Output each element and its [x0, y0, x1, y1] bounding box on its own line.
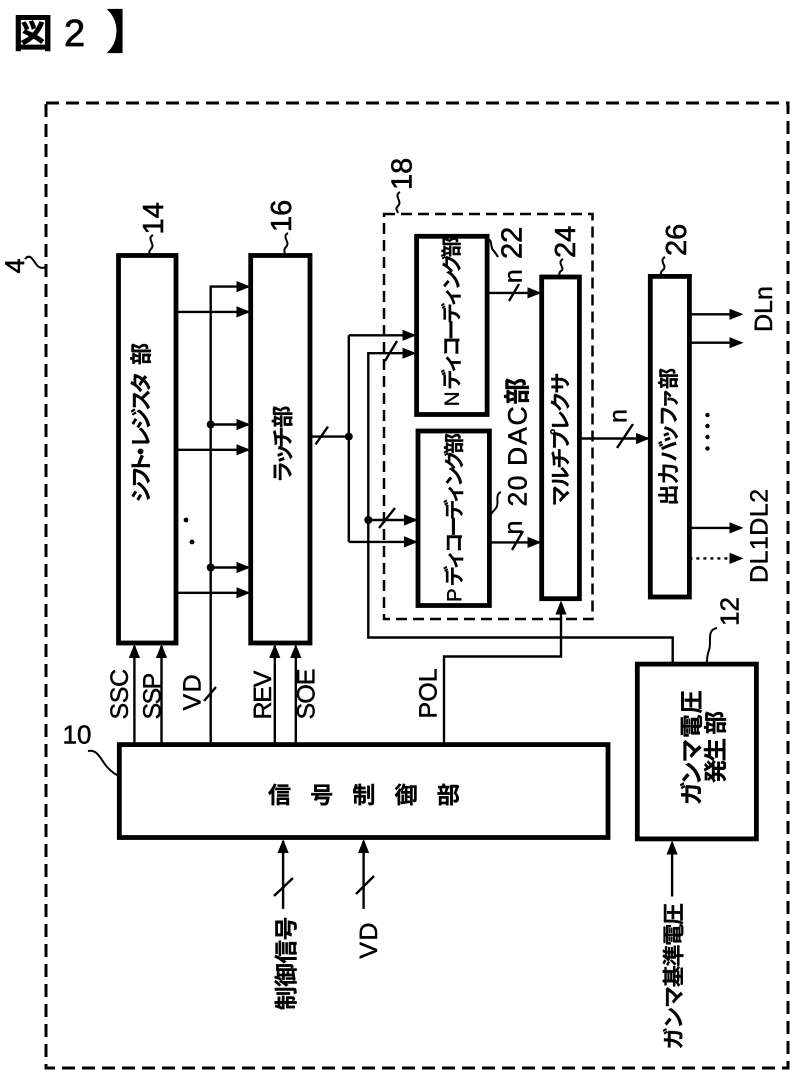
wire POL — [444, 603, 561, 745]
label 12 — [720, 598, 738, 624]
arrowhead mux to buffer — [636, 433, 650, 444]
slash VD input — [356, 876, 374, 894]
block 10 signal control-bu — [119, 745, 608, 838]
label control signal (seigyo shingo) — [275, 918, 297, 1009]
text shift-register-bu — [130, 344, 150, 501]
label VD (bottom) — [360, 924, 377, 959]
wire VD input — [362, 841, 364, 909]
label 20 DAC-bu — [504, 379, 529, 505]
wire VD branch group2 — [211, 423, 248, 425]
arrowhead VD to latch group2 — [237, 419, 251, 430]
wire DLn upper — [689, 313, 741, 315]
wire DL1 (dotted) — [689, 557, 741, 559]
block 16 latch (latch-bu) — [251, 256, 310, 644]
wire shiftreg to latch 3 — [176, 592, 248, 594]
label POL — [419, 669, 437, 716]
junction VD group2 — [207, 421, 215, 429]
slash n N out — [509, 284, 519, 301]
wire latch bus vertical — [348, 335, 350, 542]
label VD (top) — [183, 676, 200, 711]
arrowhead control signal — [278, 839, 289, 853]
squiggle for label 20 — [490, 492, 501, 516]
arrowhead shiftreg latch 3 — [237, 587, 251, 598]
arrowhead shiftreg latch 2 — [237, 444, 251, 455]
arrowhead P to mux — [528, 537, 542, 548]
wire latch to P decoder — [349, 541, 416, 543]
arrowhead DLn lower — [730, 337, 744, 348]
squiggle for label 12 — [707, 628, 717, 663]
label 4 — [5, 259, 24, 273]
wire VD vertical riser — [211, 287, 248, 745]
label DLn — [755, 288, 772, 330]
arrowhead latch to P — [404, 536, 418, 547]
block 14 shift register (shift-register-bu) — [119, 256, 177, 644]
slash control signal — [274, 878, 293, 896]
text latch-bu — [272, 406, 292, 480]
slash gamma N branch — [385, 341, 397, 361]
squiggle for label 18 — [396, 192, 400, 213]
slash gamma P branch — [379, 508, 395, 528]
squiggle for label 24 — [559, 259, 563, 277]
label 24 — [555, 227, 575, 257]
label n (N out) — [508, 271, 521, 282]
label n (mux out) — [613, 411, 626, 422]
junction VD group3 — [207, 564, 215, 572]
ellipsis dot a (between groups) — [184, 518, 189, 523]
wire shiftreg to latch 1 — [176, 311, 248, 313]
label SSC — [110, 670, 128, 719]
label DL1DL2 — [750, 490, 767, 581]
wire gamma bus — [368, 353, 672, 663]
wire gamma to P decoder — [368, 519, 415, 521]
label 10 — [64, 725, 90, 743]
squiggle for label 26 — [661, 257, 665, 276]
arrowhead REV — [269, 644, 280, 658]
wire REV — [274, 646, 276, 745]
label 26 — [666, 225, 687, 255]
block 22 N decoding-bu — [417, 236, 488, 414]
wire N decoder to mux — [487, 292, 539, 294]
arrowhead DLn upper — [730, 309, 744, 320]
text gamma-denatsu — [680, 691, 702, 803]
squiggle for label 22 — [486, 239, 498, 257]
squiggle for label 16 — [284, 233, 288, 255]
label REV — [254, 671, 271, 718]
output ellipsis dot 4 — [705, 446, 709, 450]
wire shiftreg to latch 2 — [176, 449, 248, 451]
ellipsis dot b (between groups) — [190, 540, 195, 545]
label 22 — [501, 228, 521, 257]
text multiplexer — [550, 374, 569, 504]
wire control signal input — [282, 841, 284, 909]
block 24 multiplexer — [542, 277, 580, 599]
slash latch output — [316, 427, 329, 445]
arrowhead DL1 — [730, 553, 744, 564]
label 18 — [391, 159, 412, 188]
wire P decoder to mux — [489, 541, 539, 543]
text P decoding-bu — [444, 434, 464, 601]
arrowhead latch to N — [403, 330, 417, 341]
label 16 — [271, 201, 292, 230]
wire mux to output buffer — [579, 437, 648, 439]
arrowhead shiftreg latch 1 — [237, 306, 251, 317]
slash n P out — [512, 531, 523, 550]
wire latch output — [310, 435, 349, 437]
junction latch bus — [345, 433, 353, 441]
squiggle for label 4 — [25, 257, 46, 268]
arrowhead SSC — [129, 644, 140, 658]
text signal-control-bu — [268, 784, 459, 806]
output ellipsis dot 3 — [705, 435, 709, 439]
wire DLn lower — [689, 342, 741, 344]
text hassei-bu — [704, 712, 726, 783]
wire VD branch group3 — [211, 566, 248, 568]
arrowhead DL2 — [730, 522, 744, 533]
squiggle for label 10 — [88, 751, 119, 776]
arrowhead VD to latch group3 — [237, 562, 251, 573]
junction gamma bus P — [364, 516, 372, 524]
squiggle for label 14 — [149, 235, 153, 256]
figure title 図2】 — [16, 15, 50, 50]
wire DL2 — [689, 527, 741, 529]
arrowhead POL to mux — [555, 601, 566, 615]
wire SOE — [295, 646, 297, 745]
label SSP — [143, 674, 161, 718]
arrowhead gamma reference — [667, 841, 678, 855]
arrowhead VD input — [358, 839, 369, 853]
block 12 gamma voltage generator — [637, 664, 756, 839]
arrowhead SOE — [290, 644, 301, 658]
wire latch to N decoder — [349, 334, 414, 336]
arrowhead gamma to P — [404, 514, 418, 525]
dashed box 18 (DAC section) — [384, 214, 593, 619]
text N decoding-bu — [441, 237, 461, 404]
title digit 2 — [66, 19, 83, 46]
wire SSC — [133, 646, 135, 745]
label gamma reference voltage — [663, 904, 684, 1048]
slash n mux out — [617, 424, 633, 448]
block 26 output buffer-bu — [650, 276, 689, 597]
output ellipsis dot 2 — [705, 424, 709, 428]
arrowhead SSP — [156, 644, 167, 658]
arrowhead N to mux — [528, 287, 542, 298]
slash on VD line — [204, 687, 216, 701]
block P decoding-bu — [418, 431, 489, 606]
label SOE — [297, 670, 315, 719]
wire gamma reference input — [671, 843, 673, 897]
wire SSP — [160, 646, 162, 745]
arrowhead gamma to N — [403, 348, 417, 359]
label 14 — [143, 203, 163, 232]
text output buffer-bu — [658, 369, 678, 504]
label n (P out) — [508, 522, 521, 533]
output ellipsis dot 1 — [705, 413, 709, 417]
arrowhead VD to latch group1 — [237, 281, 251, 292]
